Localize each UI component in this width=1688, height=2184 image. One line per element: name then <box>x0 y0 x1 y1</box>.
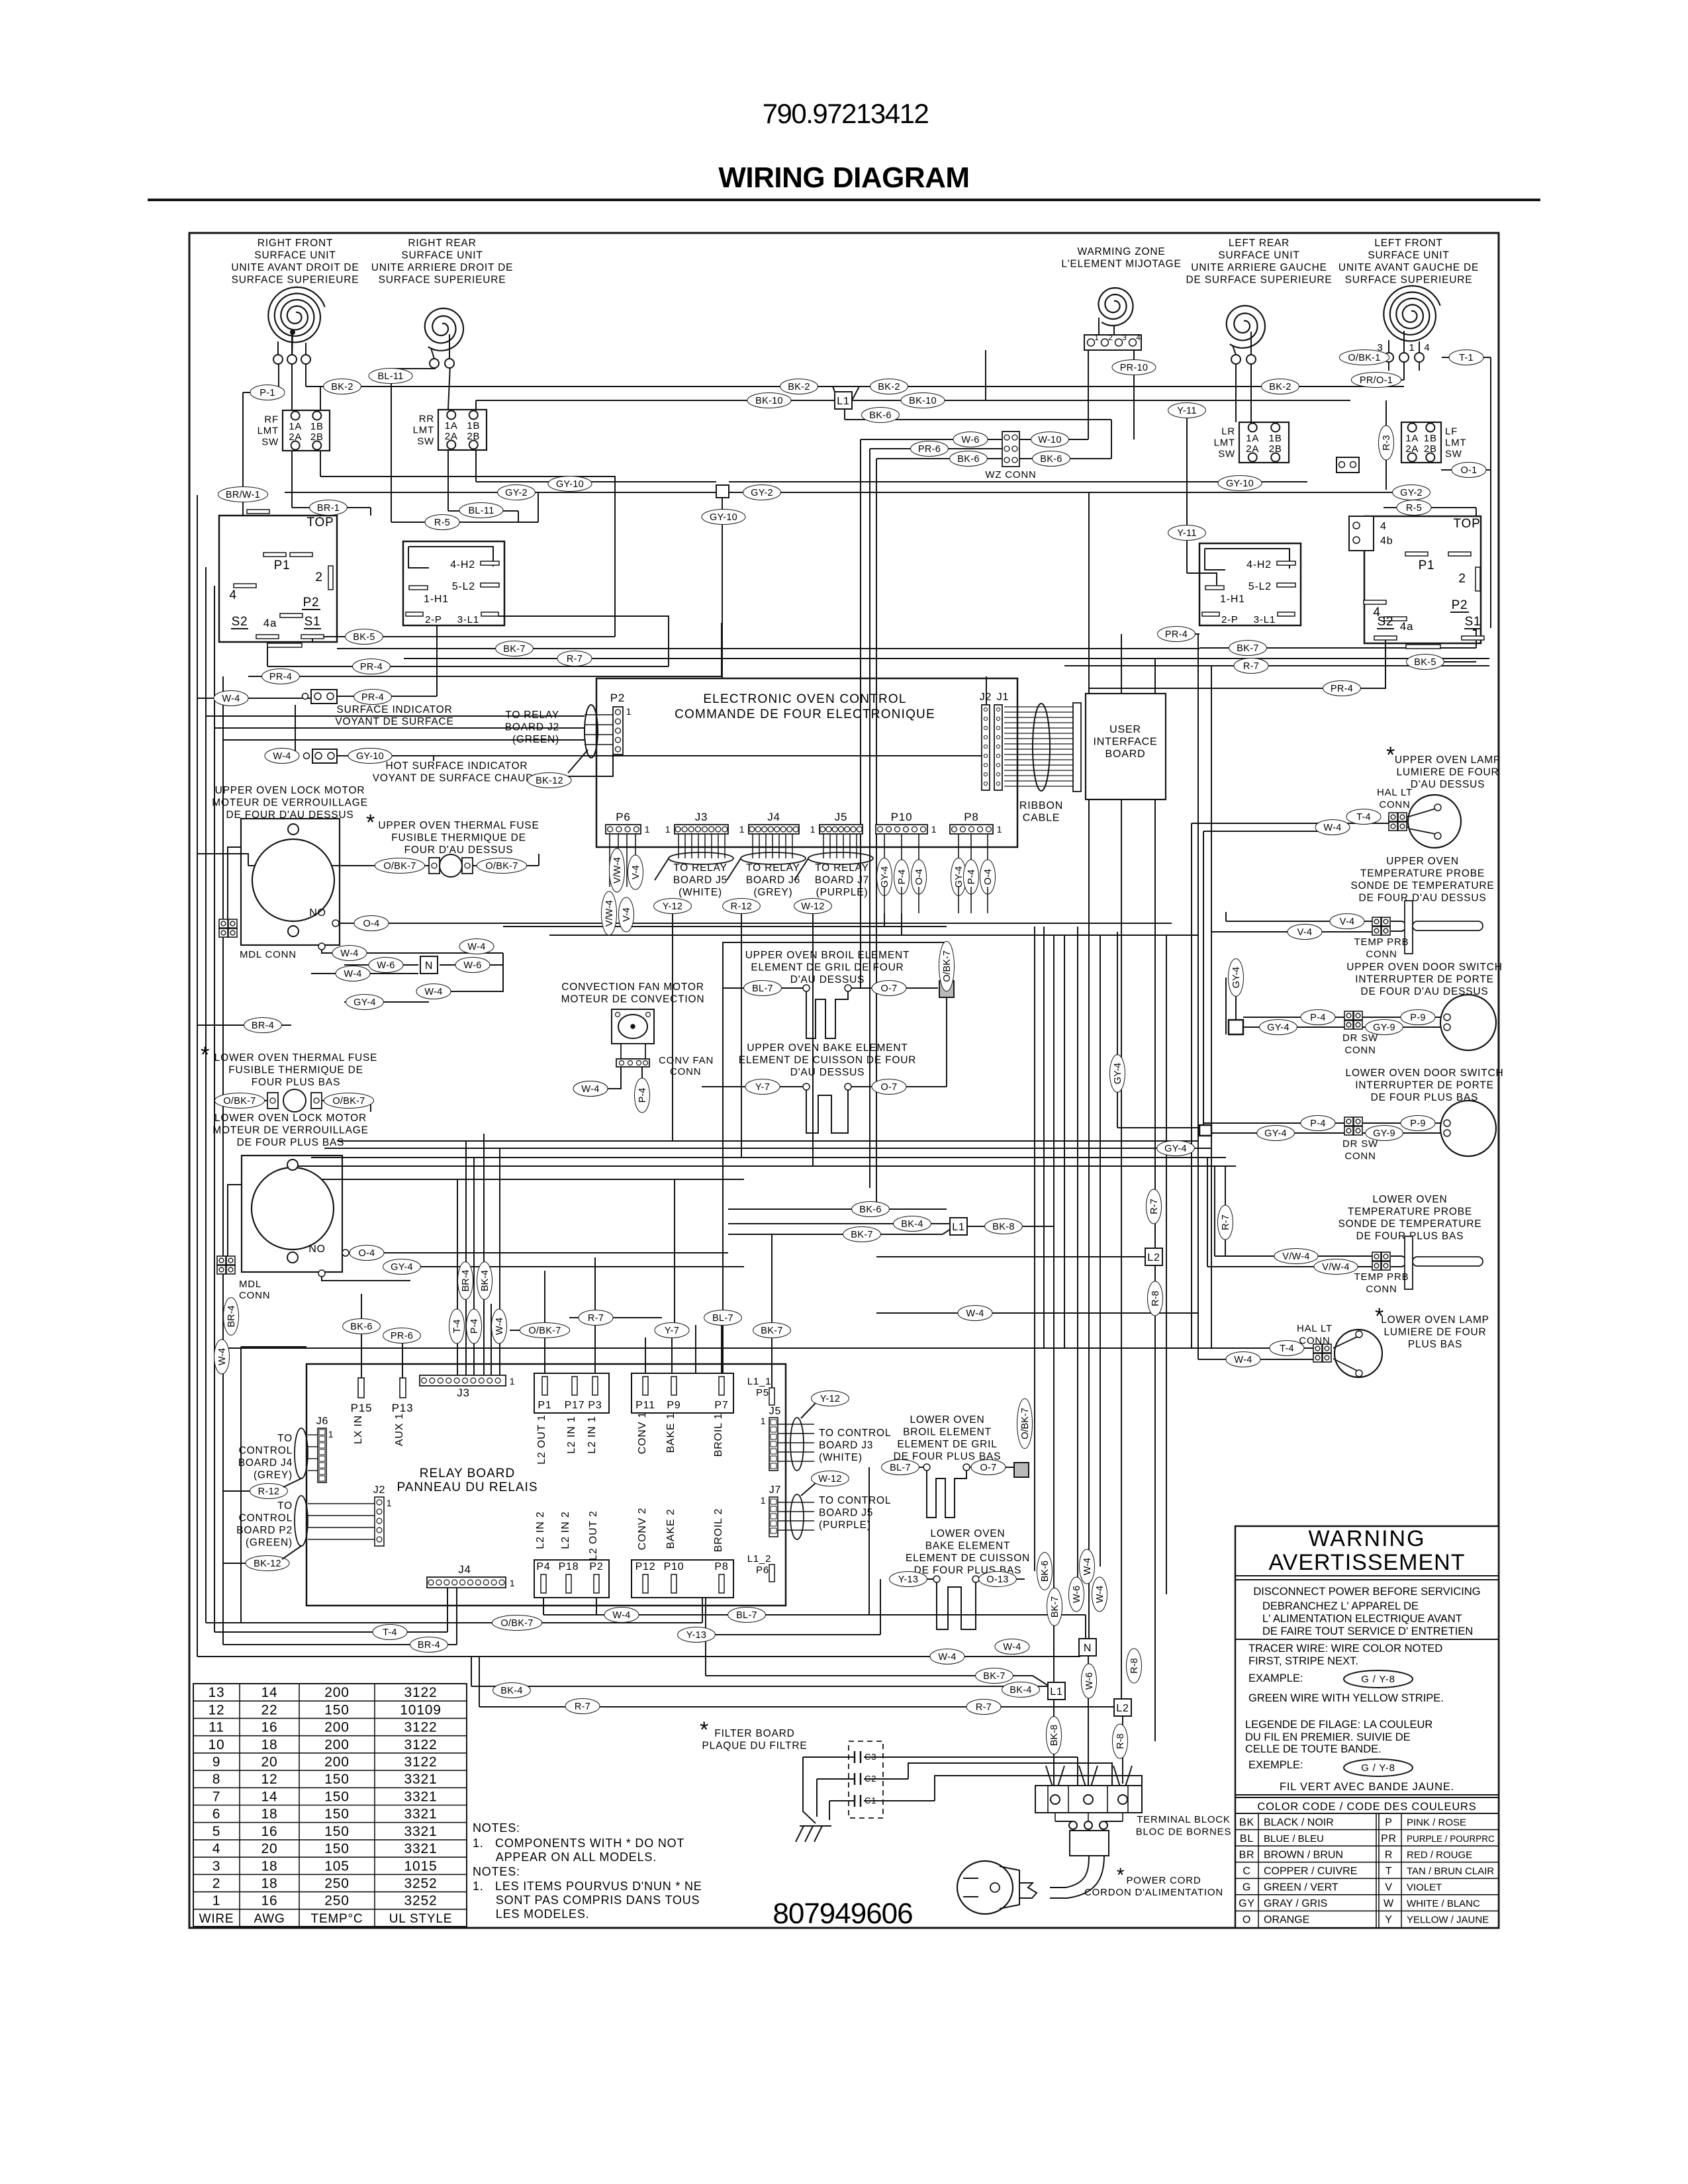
svg-text:GRAY / GRIS: GRAY / GRIS <box>1264 1898 1327 1909</box>
svg-text:BK-6: BK-6 <box>869 410 891 421</box>
svg-text:4: 4 <box>229 588 236 602</box>
svg-text:ELEMENT DE GRIL DE FOUR: ELEMENT DE GRIL DE FOUR <box>751 962 904 974</box>
svg-text:W-6: W-6 <box>377 960 395 971</box>
svg-text:R: R <box>1385 1849 1393 1860</box>
svg-text:SURFACE UNIT: SURFACE UNIT <box>254 250 336 261</box>
svg-text:BK-12: BK-12 <box>254 1559 281 1569</box>
svg-text:PR: PR <box>1381 1833 1397 1844</box>
svg-text:BR-4: BR-4 <box>252 1021 274 1031</box>
svg-text:2B: 2B <box>467 431 480 442</box>
svg-text:BK-7: BK-7 <box>851 1230 872 1240</box>
svg-text:BK-8: BK-8 <box>1049 1725 1060 1746</box>
svg-text:LEFT FRONT: LEFT FRONT <box>1374 238 1442 249</box>
svg-text:T-4: T-4 <box>452 1320 463 1334</box>
svg-text:W-4: W-4 <box>222 694 240 704</box>
svg-text:GY-4: GY-4 <box>1231 967 1242 989</box>
svg-text:GY-4: GY-4 <box>1113 1063 1123 1085</box>
svg-text:TAN / BRUN CLAIR: TAN / BRUN CLAIR <box>1407 1866 1494 1877</box>
svg-text:P4: P4 <box>536 1561 550 1572</box>
svg-text:BOARD: BOARD <box>1105 749 1146 760</box>
svg-text:ELEMENT DE CUISSON DE FOUR: ELEMENT DE CUISSON DE FOUR <box>739 1055 917 1066</box>
svg-text:5-L2: 5-L2 <box>1248 581 1272 592</box>
svg-text:BLOC DE BORNES: BLOC DE BORNES <box>1136 1827 1232 1838</box>
svg-text:P11: P11 <box>635 1400 655 1411</box>
svg-text:BR/W-1: BR/W-1 <box>226 490 260 500</box>
svg-text:RF: RF <box>264 414 279 426</box>
svg-text:L1: L1 <box>837 396 849 407</box>
svg-text:BOARD J4: BOARD J4 <box>238 1457 293 1469</box>
svg-text:4b: 4b <box>1380 535 1393 547</box>
svg-text:BROIL 1: BROIL 1 <box>713 1413 724 1457</box>
svg-text:LMT: LMT <box>1445 437 1466 449</box>
svg-text:COMMANDE DE FOUR ELECTRONIQUE: COMMANDE DE FOUR ELECTRONIQUE <box>675 707 935 721</box>
svg-text:SURFACE SUPERIEURE: SURFACE SUPERIEURE <box>379 275 506 286</box>
svg-text:SURFACE UNIT: SURFACE UNIT <box>1218 250 1299 261</box>
svg-text:UNITE ARRIERE DROIT DE: UNITE ARRIERE DROIT DE <box>371 262 514 273</box>
svg-text:G: G <box>1243 1882 1251 1893</box>
svg-text:BOARD J3: BOARD J3 <box>819 1440 873 1451</box>
svg-text:790.97213412: 790.97213412 <box>763 98 929 129</box>
svg-text:P17: P17 <box>565 1400 585 1411</box>
svg-text:GY-4: GY-4 <box>353 997 376 1008</box>
svg-text:V-4: V-4 <box>622 907 632 922</box>
svg-text:BK-4: BK-4 <box>480 1270 491 1291</box>
svg-text:J2: J2 <box>373 1484 386 1496</box>
svg-text:250: 250 <box>324 1876 349 1891</box>
svg-text:CONN: CONN <box>1366 949 1397 960</box>
svg-text:18: 18 <box>261 1737 278 1752</box>
svg-text:Y-11: Y-11 <box>1177 406 1196 416</box>
svg-text:2: 2 <box>1458 572 1466 586</box>
svg-text:BROIL ELEMENT: BROIL ELEMENT <box>903 1427 992 1438</box>
svg-text:NO: NO <box>308 1244 326 1255</box>
svg-text:V-4: V-4 <box>1340 917 1355 927</box>
svg-text:L2 OUT 2: L2 OUT 2 <box>588 1510 599 1560</box>
svg-text:2: 2 <box>212 1876 220 1891</box>
svg-text:BL-7: BL-7 <box>736 1610 757 1621</box>
svg-text:J1: J1 <box>997 692 1009 703</box>
svg-text:LOWER OVEN THERMAL FUSE: LOWER OVEN THERMAL FUSE <box>214 1052 378 1064</box>
svg-text:P-4: P-4 <box>1310 1118 1325 1129</box>
svg-text:T: T <box>1385 1866 1393 1877</box>
svg-text:P1: P1 <box>1419 559 1435 572</box>
svg-text:RIGHT REAR: RIGHT REAR <box>408 238 476 249</box>
svg-text:1: 1 <box>665 824 671 835</box>
svg-text:RED / ROUGE: RED / ROUGE <box>1407 1849 1472 1860</box>
svg-text:AWG: AWG <box>254 1912 285 1926</box>
svg-text:BK-8: BK-8 <box>992 1222 1014 1232</box>
svg-text:CONV FAN: CONV FAN <box>659 1055 714 1066</box>
svg-text:2B: 2B <box>1424 443 1437 455</box>
svg-text:*: * <box>366 810 375 835</box>
svg-text:MDL: MDL <box>239 1279 261 1290</box>
svg-text:1. COMPONENTS WITH * DO NOT: 1. COMPONENTS WITH * DO NOT <box>473 1837 684 1850</box>
svg-text:TEMP PRB: TEMP PRB <box>1354 1271 1409 1283</box>
svg-text:7: 7 <box>212 1789 220 1804</box>
svg-text:P7: P7 <box>714 1400 728 1411</box>
svg-text:1A: 1A <box>445 420 458 432</box>
svg-text:BK-12: BK-12 <box>536 776 563 786</box>
svg-text:J5: J5 <box>835 811 848 823</box>
svg-text:APPEAR ON ALL MODELS.: APPEAR ON ALL MODELS. <box>473 1850 657 1864</box>
svg-text:GY-2: GY-2 <box>751 488 773 498</box>
svg-text:UPPER OVEN DOOR SWITCH: UPPER OVEN DOOR SWITCH <box>1346 962 1502 973</box>
svg-text:BK-4: BK-4 <box>901 1219 923 1230</box>
svg-text:D'AU DESSUS: D'AU DESSUS <box>790 974 865 985</box>
svg-text:3: 3 <box>212 1858 220 1874</box>
svg-text:O/BK-7: O/BK-7 <box>332 1096 365 1107</box>
svg-text:(WHITE): (WHITE) <box>819 1452 863 1463</box>
svg-text:BK-5: BK-5 <box>1414 657 1436 668</box>
svg-text:2A: 2A <box>1246 443 1259 455</box>
svg-text:W-6: W-6 <box>463 960 481 971</box>
svg-text:(GREEN): (GREEN) <box>512 734 559 745</box>
svg-text:Y-7: Y-7 <box>755 1082 770 1093</box>
svg-text:(GREY): (GREY) <box>753 887 792 898</box>
svg-text:UPPER OVEN BAKE ELEMENT: UPPER OVEN BAKE ELEMENT <box>747 1042 908 1054</box>
svg-text:DE FAIRE TOUT SERVICE D' ENTRE: DE FAIRE TOUT SERVICE D' ENTRETIEN <box>1262 1625 1473 1637</box>
svg-text:BAKE 2: BAKE 2 <box>665 1509 677 1549</box>
svg-text:P-9: P-9 <box>1410 1118 1425 1129</box>
svg-text:UNITE ARRIERE GAUCHE: UNITE ARRIERE GAUCHE <box>1191 262 1327 273</box>
svg-text:ELEMENT DE GRIL: ELEMENT DE GRIL <box>897 1439 997 1450</box>
svg-text:BR-4: BR-4 <box>418 1640 440 1651</box>
svg-text:DEBRANCHEZ L' APPAREL DE: DEBRANCHEZ L' APPAREL DE <box>1262 1600 1419 1612</box>
svg-text:O-7: O-7 <box>880 983 897 994</box>
svg-text:O-13: O-13 <box>986 1574 1008 1585</box>
svg-text:L'ELEMENT MIJOTAGE: L'ELEMENT MIJOTAGE <box>1061 259 1181 270</box>
svg-text:UNITE AVANT DROIT DE: UNITE AVANT DROIT DE <box>231 262 359 273</box>
svg-text:1: 1 <box>387 1498 393 1508</box>
svg-text:WIRE: WIRE <box>199 1912 234 1926</box>
svg-text:CONN: CONN <box>670 1066 701 1077</box>
svg-text:TOP: TOP <box>1453 517 1480 531</box>
svg-text:HAL LT: HAL LT <box>1297 1323 1333 1334</box>
svg-text:150: 150 <box>324 1824 349 1839</box>
svg-text:250: 250 <box>324 1893 349 1909</box>
svg-text:BAKE 1: BAKE 1 <box>665 1413 677 1453</box>
svg-text:GY-10: GY-10 <box>1226 478 1254 489</box>
svg-text:L1_2: L1_2 <box>747 1553 772 1565</box>
svg-text:UNITE AVANT GAUCHE DE: UNITE AVANT GAUCHE DE <box>1338 262 1479 273</box>
svg-text:Y-13: Y-13 <box>898 1574 919 1585</box>
svg-text:PR-4: PR-4 <box>1165 629 1188 640</box>
svg-text:2B: 2B <box>1269 443 1282 455</box>
svg-text:W-4: W-4 <box>1095 1586 1105 1603</box>
svg-text:O: O <box>1243 1915 1251 1926</box>
svg-text:SURFACE SUPERIEURE: SURFACE SUPERIEURE <box>232 275 359 286</box>
svg-text:T-4: T-4 <box>383 1627 397 1638</box>
svg-text:18: 18 <box>261 1876 278 1891</box>
svg-text:R-7: R-7 <box>588 1313 604 1324</box>
svg-text:22: 22 <box>261 1702 278 1717</box>
svg-text:1A: 1A <box>289 421 302 432</box>
svg-text:P1: P1 <box>274 559 291 572</box>
svg-text:FOUR D'AU DESSUS: FOUR D'AU DESSUS <box>404 844 514 856</box>
svg-text:BK-10: BK-10 <box>909 396 937 406</box>
svg-text:J3: J3 <box>457 1387 470 1399</box>
svg-text:W-4: W-4 <box>217 1348 228 1365</box>
svg-text:R-8: R-8 <box>1115 1733 1126 1749</box>
svg-text:2B: 2B <box>310 432 324 443</box>
svg-text:UPPER OVEN LOCK MOTOR: UPPER OVEN LOCK MOTOR <box>215 785 365 796</box>
svg-text:16: 16 <box>261 1824 278 1839</box>
svg-text:PR-4: PR-4 <box>1331 684 1353 694</box>
svg-text:150: 150 <box>324 1772 349 1787</box>
svg-text:2A: 2A <box>445 431 458 442</box>
svg-text:P1: P1 <box>538 1400 551 1411</box>
svg-text:8: 8 <box>212 1772 220 1787</box>
svg-text:2A: 2A <box>1405 443 1419 455</box>
svg-text:W-4: W-4 <box>1003 1642 1021 1653</box>
svg-text:LX IN: LX IN <box>353 1415 364 1444</box>
svg-text:GY: GY <box>1239 1898 1255 1909</box>
svg-text:P6: P6 <box>756 1565 769 1576</box>
svg-text:BK-5: BK-5 <box>353 632 375 643</box>
svg-text:P2: P2 <box>610 692 625 704</box>
svg-text:RIBBON: RIBBON <box>1019 800 1063 811</box>
svg-text:BL-11: BL-11 <box>377 371 403 382</box>
svg-text:4: 4 <box>1424 342 1430 353</box>
svg-text:L1: L1 <box>1050 1686 1062 1698</box>
svg-text:O-4: O-4 <box>983 869 994 885</box>
svg-text:PR-10: PR-10 <box>1120 363 1149 373</box>
svg-text:1A: 1A <box>1405 433 1419 444</box>
svg-text:GY-9: GY-9 <box>1373 1128 1395 1139</box>
svg-text:3122: 3122 <box>404 1754 438 1770</box>
svg-text:(GREY): (GREY) <box>254 1470 293 1481</box>
svg-text:FOUR PLUS BAS: FOUR PLUS BAS <box>252 1077 340 1088</box>
svg-text:WIRING DIAGRAM: WIRING DIAGRAM <box>718 161 969 194</box>
svg-text:LOWER OVEN: LOWER OVEN <box>1372 1194 1447 1205</box>
svg-text:Y-12: Y-12 <box>663 901 683 912</box>
svg-text:Y-7: Y-7 <box>665 1326 679 1336</box>
svg-text:Y: Y <box>1385 1915 1392 1926</box>
svg-text:CONN: CONN <box>1344 1151 1376 1162</box>
svg-text:LOWER OVEN: LOWER OVEN <box>910 1414 984 1426</box>
svg-text:O/BK-7: O/BK-7 <box>528 1326 561 1336</box>
svg-text:P2: P2 <box>1452 598 1468 612</box>
svg-text:LMT: LMT <box>413 425 434 436</box>
svg-text:L2: L2 <box>1147 1252 1160 1263</box>
svg-text:W-4: W-4 <box>273 751 291 762</box>
svg-text:6: 6 <box>212 1807 220 1822</box>
svg-text:W-4: W-4 <box>581 1084 599 1095</box>
svg-text:BR-4: BR-4 <box>226 1305 237 1327</box>
svg-text:GY-4: GY-4 <box>1264 1128 1287 1139</box>
svg-text:10: 10 <box>209 1737 225 1752</box>
svg-text:PR-4: PR-4 <box>269 672 292 682</box>
svg-text:5: 5 <box>212 1824 220 1839</box>
svg-text:LOWER OVEN LAMP: LOWER OVEN LAMP <box>1381 1314 1489 1326</box>
svg-text:1015: 1015 <box>404 1858 438 1874</box>
svg-text:DR SW: DR SW <box>1342 1032 1378 1044</box>
svg-text:W-12: W-12 <box>818 1474 842 1484</box>
svg-text:D'AU DESSUS: D'AU DESSUS <box>790 1067 865 1078</box>
svg-text:INTERRUPTER DE PORTE: INTERRUPTER DE PORTE <box>1355 974 1494 985</box>
svg-text:HAL LT: HAL LT <box>1377 787 1413 798</box>
svg-text:P-4: P-4 <box>1310 1013 1325 1023</box>
svg-text:12: 12 <box>209 1702 225 1717</box>
svg-text:O-7: O-7 <box>880 1082 897 1093</box>
svg-text:BR-1: BR-1 <box>317 503 340 514</box>
svg-text:1: 1 <box>645 824 651 835</box>
svg-text:1. LES ITEMS POURVUS D'NUN *: 1. LES ITEMS POURVUS D'NUN * NE <box>473 1880 702 1893</box>
svg-text:UPPER OVEN: UPPER OVEN <box>1386 856 1459 867</box>
svg-text:AVERTISSEMENT: AVERTISSEMENT <box>1268 1550 1465 1575</box>
svg-text:P-4: P-4 <box>469 1319 480 1334</box>
svg-text:807949606: 807949606 <box>773 1897 912 1930</box>
svg-text:W-4: W-4 <box>467 942 485 952</box>
svg-text:GY-4: GY-4 <box>880 866 890 888</box>
svg-text:1: 1 <box>510 1376 516 1387</box>
svg-text:GY-4: GY-4 <box>954 866 964 888</box>
svg-text:ELEMENT DE CUISSON: ELEMENT DE CUISSON <box>906 1553 1030 1564</box>
svg-text:LEFT REAR: LEFT REAR <box>1229 238 1289 249</box>
svg-text:DU FIL EN PREMIER. SUIVIE: DU FIL EN PREMIER. SUIVIE DE <box>1245 1731 1411 1743</box>
svg-text:D'AU DESSUS: D'AU DESSUS <box>1411 779 1485 790</box>
svg-text:L' ALIMENTATION ELECTRIQUE AVA: L' ALIMENTATION ELECTRIQUE AVANT <box>1262 1613 1462 1625</box>
svg-text:O/BK-7: O/BK-7 <box>942 950 953 982</box>
svg-text:BL-7: BL-7 <box>890 1463 911 1473</box>
svg-text:DE SURFACE SUPERIEURE: DE SURFACE SUPERIEURE <box>1186 275 1333 286</box>
svg-text:GY-4: GY-4 <box>1164 1144 1187 1154</box>
svg-text:1: 1 <box>510 1578 516 1588</box>
svg-text:S2: S2 <box>232 615 248 629</box>
svg-text:SURFACE INDICATOR: SURFACE INDICATOR <box>337 704 453 715</box>
svg-text:1: 1 <box>761 1495 767 1506</box>
svg-text:W-10: W-10 <box>1038 435 1062 445</box>
svg-text:BOARD J7: BOARD J7 <box>815 875 869 886</box>
svg-text:INTERFACE: INTERFACE <box>1094 737 1158 748</box>
svg-text:EXEMPLE:: EXEMPLE: <box>1248 1759 1303 1771</box>
svg-text:VOYANT DE SURFACE: VOYANT DE SURFACE <box>335 716 453 727</box>
svg-text:W-4: W-4 <box>494 1318 505 1335</box>
svg-text:S1: S1 <box>305 615 321 629</box>
svg-text:J4: J4 <box>458 1563 471 1576</box>
svg-text:V/W-4: V/W-4 <box>1322 1262 1350 1273</box>
svg-text:SURFACE UNIT: SURFACE UNIT <box>401 250 483 261</box>
svg-text:3122: 3122 <box>404 1720 438 1735</box>
svg-text:T-4: T-4 <box>1356 812 1371 823</box>
svg-text:R-7: R-7 <box>976 1702 992 1713</box>
svg-text:WARMING ZONE: WARMING ZONE <box>1077 246 1165 257</box>
svg-text:3321: 3321 <box>404 1772 438 1787</box>
svg-text:(PURPLE): (PURPLE) <box>816 887 868 898</box>
svg-text:J7: J7 <box>769 1484 782 1496</box>
svg-text:1B: 1B <box>467 420 480 432</box>
svg-text:14: 14 <box>261 1685 278 1700</box>
svg-text:J2: J2 <box>980 692 992 703</box>
svg-text:CONN: CONN <box>239 1290 270 1301</box>
svg-text:T-4: T-4 <box>1280 1343 1294 1354</box>
svg-text:W: W <box>1383 1898 1394 1909</box>
svg-text:USER: USER <box>1109 724 1141 735</box>
svg-text:P6: P6 <box>616 811 630 823</box>
svg-text:18: 18 <box>261 1807 278 1822</box>
svg-text:L2: L2 <box>1116 1703 1129 1714</box>
svg-text:EXAMPLE:: EXAMPLE: <box>1248 1672 1303 1684</box>
svg-text:1A: 1A <box>1246 433 1259 444</box>
svg-text:C: C <box>1243 1866 1250 1877</box>
svg-text:BOARD J2: BOARD J2 <box>505 722 559 733</box>
svg-text:L2 IN 1: L2 IN 1 <box>566 1416 577 1453</box>
svg-text:CONV 2: CONV 2 <box>637 1508 648 1550</box>
svg-text:TERMINAL BLOCK: TERMINAL BLOCK <box>1137 1814 1231 1825</box>
svg-text:GY-2: GY-2 <box>1400 488 1423 498</box>
svg-text:P2: P2 <box>303 596 320 610</box>
svg-text:BK-2: BK-2 <box>878 382 900 392</box>
svg-text:S2: S2 <box>1378 615 1394 629</box>
svg-text:3321: 3321 <box>404 1824 438 1839</box>
svg-text:O-4: O-4 <box>914 869 925 885</box>
svg-text:R-7: R-7 <box>1221 1214 1231 1230</box>
svg-text:V/W-4: V/W-4 <box>612 857 623 884</box>
svg-text:NO: NO <box>309 907 326 919</box>
svg-text:LR: LR <box>1221 426 1235 437</box>
svg-text:LOWER OVEN LOCK MOTOR: LOWER OVEN LOCK MOTOR <box>214 1113 367 1124</box>
svg-text:BK-6: BK-6 <box>957 454 979 465</box>
svg-text:BK-7: BK-7 <box>1050 1596 1060 1617</box>
svg-text:O-7: O-7 <box>980 1463 996 1473</box>
svg-text:P9: P9 <box>667 1400 680 1411</box>
svg-text:LES MODELES.: LES MODELES. <box>473 1907 589 1921</box>
svg-text:CONVECTION FAN MOTOR: CONVECTION FAN MOTOR <box>561 981 704 993</box>
svg-text:P18: P18 <box>559 1561 579 1572</box>
svg-text:TEMPERATURE PROBE: TEMPERATURE PROBE <box>1360 868 1485 880</box>
svg-text:P8: P8 <box>964 811 978 823</box>
svg-text:4: 4 <box>1380 521 1387 532</box>
svg-text:V-4: V-4 <box>631 865 641 880</box>
svg-text:Y-13: Y-13 <box>686 1630 707 1641</box>
svg-text:R-8: R-8 <box>1129 1658 1140 1673</box>
svg-text:S1: S1 <box>1465 615 1481 629</box>
svg-text:UPPER OVEN THERMAL FUSE: UPPER OVEN THERMAL FUSE <box>378 820 539 831</box>
svg-text:1: 1 <box>1094 333 1099 342</box>
svg-text:MOTEUR DE VERROUILLAGE: MOTEUR DE VERROUILLAGE <box>212 1125 369 1136</box>
svg-text:13: 13 <box>209 1685 225 1700</box>
svg-text:SW: SW <box>1218 449 1235 460</box>
svg-text:SW: SW <box>417 436 434 447</box>
svg-text:3252: 3252 <box>404 1893 438 1909</box>
svg-text:5-L2: 5-L2 <box>452 581 475 592</box>
svg-text:150: 150 <box>324 1789 349 1804</box>
svg-text:O-4: O-4 <box>358 1248 375 1259</box>
svg-text:MOTEUR DE CONVECTION: MOTEUR DE CONVECTION <box>561 994 705 1005</box>
svg-text:O-1: O-1 <box>1460 465 1477 476</box>
svg-text:P13: P13 <box>392 1402 414 1414</box>
svg-text:BK-7: BK-7 <box>983 1671 1005 1682</box>
svg-text:J3: J3 <box>695 811 708 823</box>
svg-text:200: 200 <box>324 1685 349 1700</box>
svg-text:RIGHT FRONT: RIGHT FRONT <box>258 238 333 249</box>
svg-text:COLOR CODE / CODE DES COULEURS: COLOR CODE / CODE DES COULEURS <box>1257 1801 1476 1813</box>
svg-text:TEMPERATURE PROBE: TEMPERATURE PROBE <box>1348 1206 1472 1218</box>
svg-text:16: 16 <box>261 1720 278 1735</box>
svg-text:4-H2: 4-H2 <box>1246 559 1272 570</box>
svg-text:*: * <box>201 1042 210 1068</box>
svg-text:MDL CONN: MDL CONN <box>240 949 297 960</box>
svg-text:P: P <box>1385 1817 1392 1828</box>
svg-text:Y-11: Y-11 <box>1177 528 1196 539</box>
svg-text:LOWER OVEN: LOWER OVEN <box>930 1528 1005 1539</box>
svg-text:BLUE / BLEU: BLUE / BLEU <box>1264 1833 1324 1844</box>
svg-text:V: V <box>1385 1882 1392 1893</box>
svg-text:R-3: R-3 <box>1382 435 1392 450</box>
svg-text:12: 12 <box>261 1772 278 1787</box>
svg-text:CORDON D'ALIMENTATION: CORDON D'ALIMENTATION <box>1084 1887 1223 1898</box>
svg-text:P3: P3 <box>588 1400 602 1411</box>
